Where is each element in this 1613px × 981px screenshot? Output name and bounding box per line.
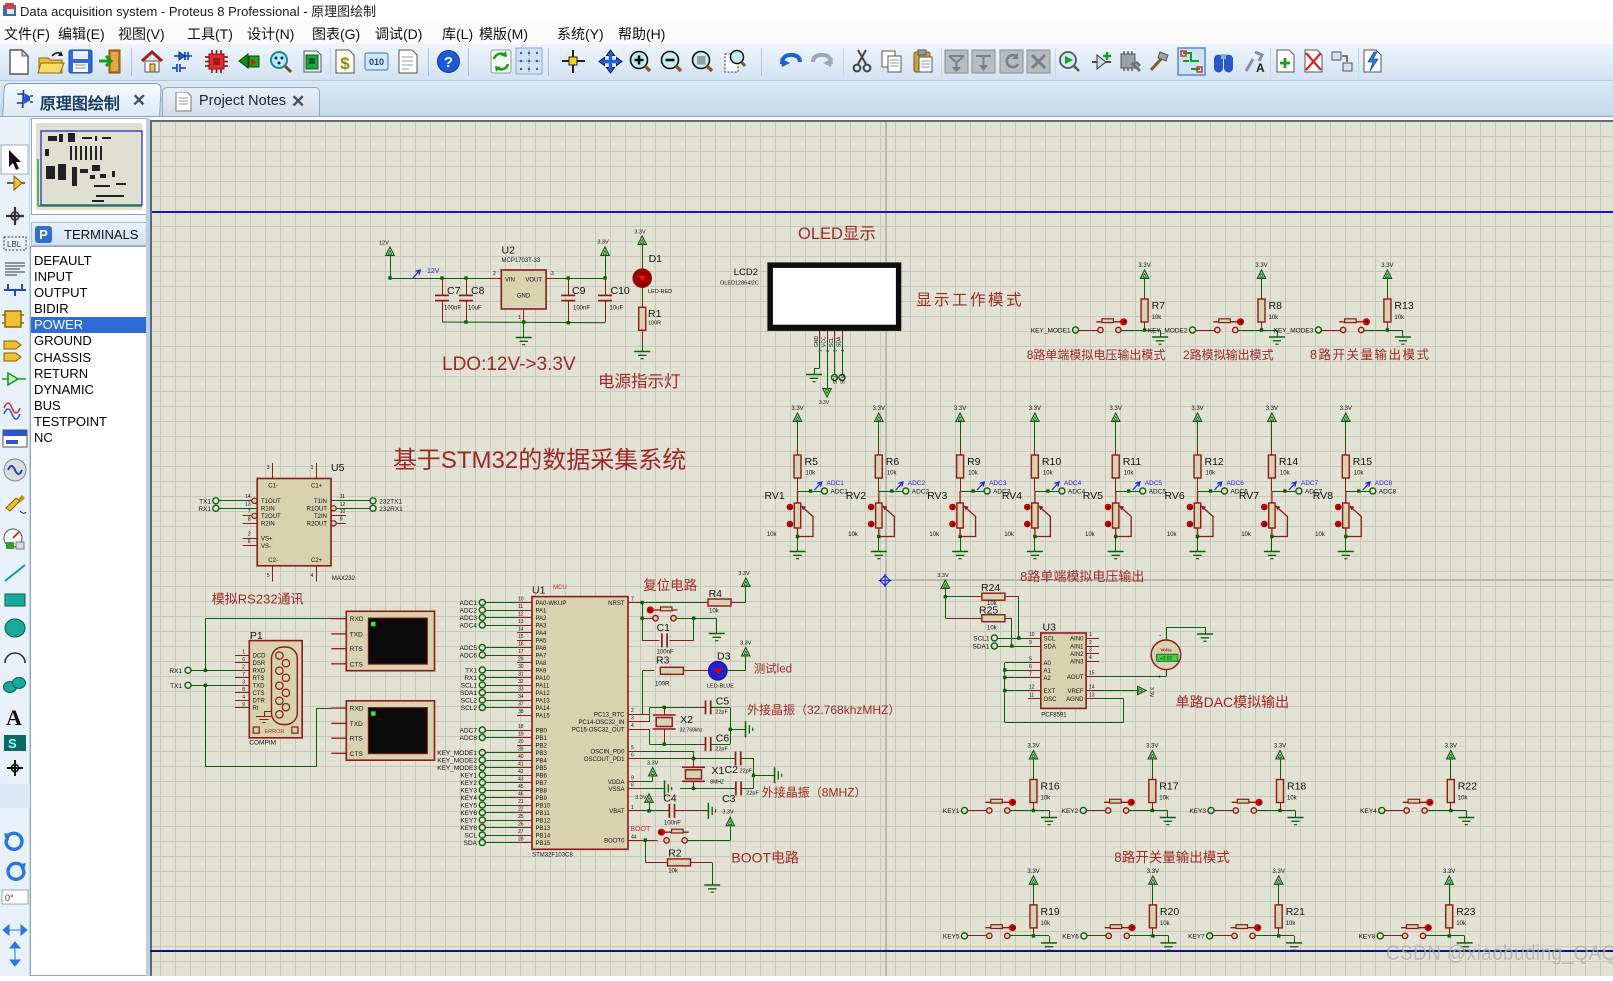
- wire RV2 to ground: [878, 537, 880, 552]
- 010: [365, 53, 388, 70]
- wire SDA: [485, 842, 517, 844]
- potentiometer RV3 10k: [950, 491, 976, 537]
- pin 2 VCC of OLED: [827, 331, 829, 341]
- svg-text:010: 010: [369, 57, 384, 67]
- wire OSCIN to X1: [641, 751, 694, 753]
- terminal KEY_MODE1: [1073, 327, 1079, 333]
- wire node to terminal ADC6: [1198, 491, 1222, 493]
- resistor R22 10k: [1447, 751, 1455, 759]
- origin: [562, 50, 585, 73]
- ground at X1: [775, 767, 782, 783]
- pin 1 DCD of P1: [235, 655, 249, 657]
- pin 2 PC13_RTC: [628, 714, 641, 716]
- pin 2 VIN: [490, 278, 501, 280]
- resistor R23 10k: [1445, 876, 1453, 884]
- resistor R19 10k: [1029, 876, 1037, 884]
- pin 5 C2-: [272, 566, 274, 582]
- pin 28 PB15: [517, 842, 532, 844]
- net label ADC2: [896, 482, 903, 490]
- power terminal 3.3V at VDDA: [649, 768, 657, 776]
- wire KEY3 to button: [1214, 810, 1233, 812]
- push button KEY1: [985, 799, 1016, 813]
- svg-text:A: A: [1256, 61, 1265, 75]
- reset push button: [642, 603, 644, 641]
- terminal KEY1: [961, 807, 967, 813]
- power down arrow at OLED VCC: [827, 341, 829, 389]
- pin 41 PB5: [517, 767, 532, 769]
- wire KEY_MODE2: [485, 760, 517, 762]
- pin 38 PA15: [517, 715, 532, 717]
- wire D1 to R1: [642, 288, 644, 291]
- pin 3 TXD of P1: [235, 685, 249, 687]
- push button KEY_MODE2: [1213, 319, 1244, 333]
- terminal RX1 at P1: [185, 667, 191, 673]
- decompose: [1121, 51, 1140, 71]
- ground at RV2: [871, 552, 887, 559]
- 3d board: [304, 51, 321, 72]
- wire voltmeter to ground: [1166, 627, 1168, 640]
- pin 33 PA12: [517, 692, 532, 694]
- net label ADC6: [1215, 482, 1222, 490]
- wire KEY7: [485, 820, 517, 822]
- power terminal 3.3V at R15: [1342, 413, 1350, 421]
- power terminal 3.3V at R6: [875, 413, 883, 421]
- wire ADC7: [485, 730, 517, 732]
- pin 2 RXD of P1: [235, 670, 249, 672]
- resistor R8 10k: [1257, 270, 1265, 278]
- copy: [882, 51, 901, 72]
- wire ADC2: [485, 610, 517, 612]
- wire RV5 to ground: [1115, 537, 1117, 552]
- power terminal 3.3V at LDO output: [601, 247, 609, 255]
- wire button to R20: [1129, 935, 1153, 937]
- electrical check: [1364, 50, 1381, 72]
- wire node to terminal ADC2: [879, 491, 903, 493]
- wire autorouter (selected): [1178, 48, 1205, 75]
- pin 1 GND: [523, 309, 525, 322]
- terminal 232RX1: [370, 505, 376, 511]
- virtual terminal VT2: [331, 701, 434, 760]
- wire 12V rail: [390, 278, 490, 280]
- wire KEY4 to button: [1385, 810, 1404, 812]
- terminal TX1 at U1: [479, 667, 485, 673]
- import/exit: [99, 50, 120, 73]
- wire SDA1 to U3: [997, 646, 1027, 648]
- terminal ADC2: [903, 488, 909, 494]
- wire node to terminal ADC7: [1272, 491, 1296, 493]
- potentiometer RV7 10k: [1261, 491, 1287, 537]
- pin 12 R1OUT bubble: [331, 506, 336, 511]
- wire KEY1 to button: [968, 810, 987, 812]
- bom $: [336, 50, 354, 73]
- wire R25 to SDA: [1011, 618, 1013, 646]
- resistor R21 10k: [1275, 876, 1283, 884]
- pin 14 T1OUT bubble: [252, 498, 257, 503]
- wire ADC4: [485, 625, 517, 627]
- push button KEY_MODE1: [1096, 319, 1127, 333]
- power terminal 3.3V at R10: [1031, 413, 1039, 421]
- terminal SDA of OLED: [842, 341, 844, 374]
- ground at R2: [704, 885, 720, 892]
- wire node to terminal ADC5: [1116, 491, 1140, 493]
- home: [142, 52, 162, 72]
- terminal ADC8 at U1: [479, 734, 485, 740]
- wire R2 to ground: [691, 862, 713, 864]
- terminal ADC5: [1140, 488, 1146, 494]
- new sheet: [1277, 50, 1294, 72]
- push button KEY_MODE3: [1339, 319, 1370, 333]
- wire button to R17: [1129, 810, 1153, 812]
- resistor R4 10k: [701, 602, 708, 604]
- wire AOUT to voltmeter: [1099, 676, 1166, 678]
- potentiometer RV4 10k: [1024, 491, 1050, 537]
- wire PC15 to crystal rail: [641, 729, 650, 731]
- resistor R17 10k: [1148, 751, 1156, 759]
- resistor R11 10k: [1115, 446, 1117, 455]
- wire button to R8: [1238, 330, 1262, 332]
- wire KEY_MODE1 to button: [1079, 330, 1098, 332]
- block rotate (disabled): [1000, 50, 1023, 73]
- power terminal 3.3V at R12: [1193, 413, 1201, 421]
- pin 6 VS-: [243, 545, 258, 547]
- pin 34 PA13: [517, 700, 532, 702]
- adc U3 PCF8591: [1041, 633, 1086, 708]
- block delete (disabled): [1027, 50, 1050, 73]
- wire node to terminal ADC1: [798, 491, 822, 493]
- ground at KEY_MODE2: [1269, 337, 1285, 344]
- wire R23 node to ground: [1449, 935, 1465, 937]
- terminal RX1 at U1: [479, 674, 485, 680]
- pin 18 PB0: [517, 730, 532, 732]
- terminal KEY5 at U1: [479, 802, 485, 808]
- terminal KEY4: [1379, 807, 1385, 813]
- terminal KEY7: [1207, 933, 1213, 939]
- pin 8 R2IN: [243, 523, 258, 525]
- wire RV3 to ground: [960, 537, 962, 552]
- pin 14 PA4: [517, 632, 532, 634]
- pin 16 PA6: [517, 647, 532, 649]
- wire R17 node to ground: [1152, 810, 1168, 812]
- terminal RX1 at U5: [213, 505, 219, 511]
- block copy (disabled): [945, 50, 968, 73]
- pin 6 OSCOUT_PD1: [628, 758, 641, 760]
- new component: [1092, 52, 1111, 69]
- pin 6 A1 of U3: [1028, 670, 1041, 672]
- resistor R24 10k: [945, 596, 971, 598]
- power terminal 3.3V at R5: [793, 413, 801, 421]
- power terminal 3.3V at D3: [742, 648, 750, 656]
- hammer: [1151, 52, 1168, 70]
- undo: [780, 55, 800, 67]
- resistor R13 10k: [1383, 270, 1391, 278]
- ground at OLED pin1: [819, 341, 821, 368]
- wire R19 node to ground: [1034, 935, 1050, 937]
- pin 7 RTS of P1: [235, 677, 249, 679]
- wire VREF to 3.3V arrow: [1099, 690, 1138, 692]
- zoom in: [631, 52, 651, 72]
- net label ADC4: [1052, 482, 1059, 490]
- pin 10 T2IN: [331, 515, 346, 517]
- pin 12 PA2: [517, 617, 532, 619]
- wire boot button to 3.3V: [688, 840, 731, 842]
- help: [438, 51, 460, 73]
- wire RV8 to ground: [1345, 537, 1347, 552]
- pin 14 VREF of U3: [1086, 690, 1099, 692]
- goto parent: [1332, 52, 1352, 71]
- wire KEY6 to button: [1087, 935, 1106, 937]
- wire VBAT: [641, 810, 669, 812]
- terminal ADC8: [1370, 488, 1376, 494]
- pin 32 PA11: [517, 685, 532, 687]
- cut: [854, 50, 871, 71]
- resistor R1 100R: [639, 307, 646, 330]
- zoom area: [725, 51, 745, 73]
- wire KEY5 to button: [968, 935, 987, 937]
- remove sheet: [1305, 50, 1322, 72]
- power terminal 3.3V at R14: [1268, 413, 1276, 421]
- power terminal 3.3V at R24: [941, 580, 949, 588]
- wire node to terminal ADC8: [1346, 491, 1370, 493]
- OLED LCD2 display: [767, 262, 901, 331]
- push button KEY7: [1231, 924, 1262, 938]
- power terminal 3.3V at BOOT: [726, 817, 734, 825]
- pin 2 AIN1 of U3: [1086, 646, 1099, 648]
- refresh: [491, 50, 511, 73]
- svg-text:$: $: [340, 54, 350, 73]
- block move (disabled): [972, 50, 995, 73]
- ground at RV4: [1027, 552, 1043, 559]
- wire KEY_MODE1: [485, 752, 517, 754]
- terminal ADC5 at U1: [479, 644, 485, 650]
- voltmeter: [1151, 640, 1181, 670]
- ground: [523, 322, 525, 337]
- wire R4 to 3.3V: [740, 602, 746, 604]
- pin 13 PA3: [517, 625, 532, 627]
- terminal KEY_MODE3: [1315, 327, 1321, 333]
- grid toggle (pressed): [516, 48, 542, 74]
- terminal 232TX1: [370, 498, 376, 504]
- terminal ADC7: [1296, 488, 1302, 494]
- pin 9 R2OUT: [331, 521, 336, 526]
- ground at RV3: [952, 552, 968, 559]
- pin 4 AIN3 of U3: [1086, 661, 1099, 663]
- new file: [10, 50, 28, 74]
- push button KEY5: [985, 924, 1016, 938]
- ground at RV6: [1190, 552, 1206, 559]
- zoom play: [1060, 52, 1079, 71]
- property assign: [1246, 52, 1265, 75]
- terminal KEY6 at U1: [479, 809, 485, 815]
- pin 9 SDA of U3: [1028, 646, 1041, 648]
- pin 10 PA0-WKUP: [517, 602, 532, 604]
- terminal ADC4 at U1: [479, 622, 485, 628]
- pin 7 NRST: [628, 602, 641, 604]
- wire ADC1: [485, 602, 517, 604]
- resistor R18 10k: [1276, 751, 1284, 759]
- wire R20 node to ground: [1153, 935, 1169, 937]
- wire KEY_MODE2 to button: [1196, 330, 1215, 332]
- pin 43 PB7: [517, 782, 532, 784]
- wire RV1 to ground: [797, 537, 799, 552]
- terminal ADC4: [1059, 488, 1065, 494]
- wire D3 to 3.3V: [727, 670, 746, 672]
- wire SCL: [485, 835, 517, 837]
- wire TX1: [485, 670, 517, 672]
- wire ADC8: [485, 737, 517, 739]
- terminal KEY8 at U1: [479, 824, 485, 830]
- pin 1 GND of OLED: [819, 331, 821, 341]
- resistor R7 10k: [1140, 270, 1148, 278]
- power terminal 3.3V at R9: [956, 413, 964, 421]
- ground at voltmeter: [1197, 634, 1213, 641]
- ground at KEY_MODE1: [1152, 337, 1168, 344]
- terminal KEY1 at U1: [479, 772, 485, 778]
- wire TX1 to P1 TXD: [191, 685, 235, 687]
- pin 8 CTS of P1: [235, 692, 249, 694]
- pin 11 PA1: [517, 610, 532, 612]
- terminal KEY3: [1208, 807, 1214, 813]
- capacitor C3 22pF: [736, 781, 741, 795]
- terminal ADC6 at U1: [479, 652, 485, 658]
- pin 17 PA7: [517, 655, 532, 657]
- wire C2 C3 to ground: [753, 759, 755, 789]
- open: [38, 51, 64, 73]
- pin 20 PB2: [517, 745, 532, 747]
- wire BOOT0: [641, 840, 658, 842]
- wire R13 node to ground: [1387, 330, 1403, 332]
- zoom all: [693, 52, 713, 72]
- pin 27 PB14: [517, 835, 532, 837]
- wire VDDA to 3.3V: [641, 781, 653, 783]
- net label ADC1: [815, 482, 822, 490]
- wire button to R18: [1257, 810, 1281, 812]
- resistor R3 100R: [649, 670, 655, 672]
- wire KEY8 to button: [1383, 935, 1402, 937]
- wire VSSA to ground: [641, 788, 664, 790]
- LED D3 LED-BLUE: [709, 662, 728, 681]
- resistor R6 10k: [878, 446, 880, 455]
- terminal KEY8: [1377, 933, 1383, 939]
- wire TX1 to VT2 RXD: [205, 685, 207, 767]
- pin 2 VS+: [243, 538, 258, 540]
- pin 22 PB11: [517, 812, 532, 814]
- wire SCL1: [485, 685, 517, 687]
- wire KEY4: [485, 797, 517, 799]
- pin 4 PC15-OSC32_OUT: [628, 729, 641, 731]
- pin 4 C2+: [316, 566, 318, 582]
- wire ADC6: [485, 655, 517, 657]
- search: [1214, 54, 1233, 73]
- wire button to R19: [1010, 935, 1034, 937]
- wire R24 to SCL: [1018, 597, 1020, 638]
- pin 44 BOOT0: [628, 840, 641, 842]
- ground at RV7: [1264, 552, 1280, 559]
- resistor R5 10k: [797, 446, 799, 455]
- pin 3 VOUT: [546, 278, 557, 280]
- wire KEY2 to button: [1086, 810, 1105, 812]
- pin 46 PB9: [517, 797, 532, 799]
- wire KEY_MODE3: [485, 767, 517, 769]
- wire RV6 to ground: [1197, 537, 1199, 552]
- potentiometer RV2 10k: [868, 491, 894, 537]
- potentiometer RV8 10k: [1335, 491, 1361, 537]
- wire KEY5: [485, 805, 517, 807]
- terminal ADC6: [1221, 488, 1227, 494]
- terminal KEY7 at U1: [479, 817, 485, 823]
- wire KEY3: [485, 790, 517, 792]
- wire reset button to ground: [676, 618, 717, 620]
- ground at C4: [708, 803, 715, 819]
- pin 37 PA14: [517, 707, 532, 709]
- net label ADC3: [977, 482, 984, 490]
- pin 15 PA5: [517, 640, 532, 642]
- terminal SCL1 at U3: [991, 635, 997, 641]
- capacitor C4 100nF: [669, 804, 674, 818]
- net label ADC8: [1363, 482, 1370, 490]
- push button KEY6: [1105, 924, 1136, 938]
- pin 1 AIN0 of U3: [1086, 638, 1099, 640]
- ground at KEY3: [1288, 818, 1304, 825]
- wire R7 node to ground: [1145, 330, 1161, 332]
- resistor R15 10k: [1345, 446, 1347, 455]
- net label ADC5: [1133, 482, 1140, 490]
- resistor R10 10k: [1034, 446, 1036, 455]
- terminal KEY_MODE3 at U1: [479, 764, 485, 770]
- ground at reset: [709, 634, 725, 641]
- pin 3 PC14-OSC32_IN: [628, 721, 641, 723]
- power terminal 3.3V at VBAT: [649, 803, 651, 811]
- capacitor C1 100nF: [642, 640, 659, 642]
- ground at RV1: [790, 552, 806, 559]
- wire button to R7: [1121, 330, 1145, 332]
- crystal X1 8MHZ: [682, 767, 705, 781]
- pin 30 PA9: [517, 670, 532, 672]
- capacitor C6 22pF: [706, 737, 711, 751]
- terminal ADC3: [984, 488, 990, 494]
- wire KEY1: [485, 775, 517, 777]
- redo: [813, 55, 833, 67]
- schematic capture: [172, 52, 192, 72]
- svg-text:S: S: [8, 736, 17, 751]
- resistor R20 10k: [1149, 876, 1157, 884]
- terminal KEY2: [1080, 807, 1086, 813]
- ground below R1: [634, 352, 650, 359]
- capacitor C9: [567, 276, 570, 279]
- net label 12V: [413, 270, 420, 278]
- save: [69, 50, 92, 73]
- terminal ADC2 at U1: [479, 607, 485, 613]
- terminal ADC7 at U1: [479, 727, 485, 733]
- microcontroller U1 STM32F103C8: [532, 597, 628, 850]
- wire button to R16: [1010, 810, 1034, 812]
- ground inside P1: [264, 711, 272, 713]
- wire RX1 to VT1 RXD: [205, 619, 207, 671]
- animation: [239, 54, 259, 68]
- wire node to terminal ADC3: [960, 491, 984, 493]
- wire ADC3: [485, 617, 517, 619]
- wire SCL1 to U3: [997, 638, 1027, 640]
- pan: [599, 50, 622, 73]
- wire VOUT rail: [557, 278, 605, 280]
- pin 6 DSR of P1: [235, 662, 249, 664]
- pin 11 T1IN wire: [331, 500, 370, 502]
- potentiometer RV5 10k: [1105, 491, 1131, 537]
- terminal ADC3 at U1: [479, 614, 485, 620]
- wire button to R22: [1427, 810, 1451, 812]
- terminal SDA1 at U1: [479, 689, 485, 695]
- ground at RV8: [1338, 552, 1354, 559]
- pin 26 PB13: [517, 827, 532, 829]
